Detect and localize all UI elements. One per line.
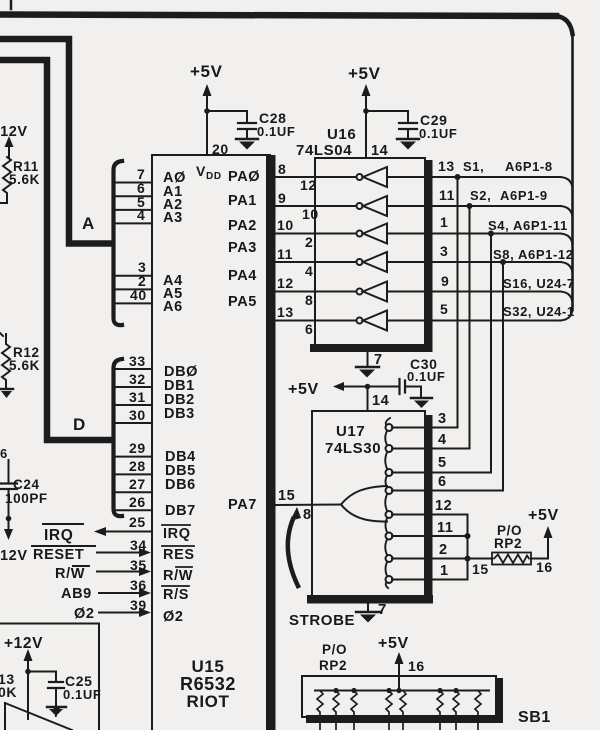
wire PA4 to U16 [276, 291, 357, 293]
svg-text:3: 3 [438, 411, 447, 427]
C24 value labels [5, 477, 48, 506]
svg-text:11: 11 [437, 520, 454, 536]
svg-text:12V: 12V [0, 548, 28, 564]
svg-text:34: 34 [130, 537, 147, 553]
SB1 label [518, 709, 551, 726]
pin 15 label (RP2) [472, 561, 489, 577]
svg-text:5: 5 [440, 301, 448, 317]
pack resistors [317, 691, 481, 730]
node A label [82, 214, 95, 233]
wire U17 pin 14 [367, 387, 369, 412]
junction +12V node [25, 669, 31, 675]
svg-text:11: 11 [277, 246, 293, 262]
svg-text:0.1UF: 0.1UF [407, 369, 445, 384]
svg-text:74LS04: 74LS04 [296, 142, 352, 159]
U15 pin stubs A4-A6 (pins 3,2,40) [116, 276, 152, 304]
junction +5V/C28 [204, 108, 210, 114]
wire inverter U16c output (S4) [387, 233, 561, 235]
pin numbers 33 32 31 30 [129, 353, 146, 423]
junction pin 2 [465, 556, 471, 562]
wire PA5 to U16 [276, 320, 357, 322]
svg-text:32: 32 [129, 371, 146, 387]
pin 35 label [130, 557, 147, 573]
svg-text:13: 13 [438, 158, 455, 174]
svg-text:12: 12 [300, 177, 317, 193]
svg-text:0.1UF: 0.1UF [257, 124, 295, 139]
bracket for address bus A [114, 161, 123, 325]
junction pin 11 [465, 533, 471, 539]
svg-text:74LS30: 74LS30 [325, 440, 381, 457]
pin 39 label [130, 597, 147, 613]
junction S2 [467, 203, 473, 209]
svg-text:DB6: DB6 [165, 477, 196, 493]
wire PA2 to U16 [276, 233, 357, 235]
svg-text:3: 3 [440, 243, 448, 259]
svg-text:PA1: PA1 [228, 193, 257, 209]
svg-text:100PF: 100PF [5, 491, 48, 506]
svg-text:S32, U24-1: S32, U24-1 [503, 304, 575, 319]
IRQ net label [44, 527, 73, 544]
U15 inside labels DB0-DB7 [164, 364, 198, 519]
junction C24 [6, 516, 12, 522]
svg-text:0K: 0K [0, 684, 17, 700]
inverter U16b [357, 196, 388, 216]
svg-text:1: 1 [440, 563, 449, 579]
svg-text:Ø2: Ø2 [163, 609, 184, 625]
svg-text:A6P1-9: A6P1-9 [500, 188, 548, 203]
node D label [73, 415, 86, 434]
external RESET arrow (pin 34) [97, 548, 151, 557]
svg-text:9: 9 [278, 190, 286, 206]
svg-text:7: 7 [53, 705, 61, 720]
svg-text:S4, A6P1-11: S4, A6P1-11 [488, 218, 568, 233]
+5V rail to U17 pin 14 and C30 [288, 381, 399, 398]
capacitor C25 0.1UF [28, 672, 64, 707]
pin 16 label (pack) [408, 658, 425, 674]
svg-text:36: 36 [130, 577, 147, 593]
IC U15 R6532 RIOT box [152, 155, 276, 730]
svg-text:DD: DD [206, 171, 222, 182]
svg-text:11: 11 [439, 187, 455, 203]
svg-text:1: 1 [440, 214, 448, 230]
svg-text:6: 6 [438, 474, 447, 490]
svg-text:+5V: +5V [378, 635, 409, 652]
U15 pin stubs A0-A3 (pins 7,6,5,4) [116, 183, 152, 224]
svg-text:7: 7 [378, 601, 387, 618]
svg-text:35: 35 [130, 557, 147, 573]
pin 25 label [129, 514, 146, 530]
svg-text:AB9: AB9 [61, 586, 92, 602]
STROBE pointer arrow [288, 507, 301, 586]
C29 value labels [419, 112, 457, 141]
svg-text:R/S: R/S [163, 587, 189, 603]
svg-text:+5V: +5V [288, 381, 319, 398]
capacitor C28 0.1UF [207, 111, 256, 138]
net label S4, A6P1-11 [488, 218, 568, 233]
svg-text:27: 27 [129, 476, 146, 492]
RP2 labels [494, 523, 522, 551]
resistor R11 5.6K [0, 157, 11, 203]
overlines for inside labels [162, 525, 194, 586]
svg-text:4: 4 [137, 207, 145, 223]
svg-text:10: 10 [277, 217, 294, 233]
svg-text:+5V: +5V [348, 64, 381, 83]
IC U17 74LS30 box [307, 411, 433, 604]
resistor R13 10K (cut at edge) labels [0, 671, 17, 700]
inverter U16a [357, 167, 388, 187]
svg-text:0.1UF: 0.1UF [63, 687, 101, 702]
svg-text:12: 12 [277, 275, 294, 291]
R/W net label [55, 566, 85, 582]
capacitor C29 0.1UF [366, 111, 417, 138]
C25 value labels [63, 673, 101, 702]
U15 pin stubs DB4-DB7 (pins 29,28,27,26) [116, 457, 152, 511]
ground (C29) [397, 139, 419, 150]
junction rail dots [333, 688, 458, 693]
resistor P/O RP2 (pull-up) [468, 553, 532, 565]
svg-text:20: 20 [212, 141, 229, 157]
wire PA3 to U16 [276, 261, 357, 263]
svg-text:7: 7 [374, 352, 383, 368]
wire inverter U16e output (S16) [387, 291, 561, 293]
svg-text:S2,: S2, [470, 188, 491, 203]
pin 20 label [212, 141, 229, 157]
keyboard resistor pack box SB1 [302, 676, 503, 723]
IC U16 74LS04 box [310, 158, 433, 352]
RESET net label [33, 547, 84, 563]
net label S2, A6P1-9 [470, 188, 548, 203]
wire U17 pins 12,11,2,1 tie [433, 515, 468, 580]
pin 8 label (U17 output) [303, 507, 312, 523]
svg-text:8: 8 [303, 507, 312, 523]
U17 input pin numbers 3 4 5 6 12 11 2 1 [435, 411, 454, 579]
net label S16, U24-7 [503, 276, 575, 291]
pin numbers 7 6 5 4 [137, 166, 145, 223]
svg-text:9: 9 [441, 273, 449, 289]
svg-text:8: 8 [305, 292, 313, 308]
svg-text:16: 16 [408, 658, 425, 674]
svg-text:+5V: +5V [528, 507, 559, 524]
pin 36 label [130, 577, 147, 593]
net label S1, A6P1-8 [463, 159, 553, 174]
bus D (thick) [0, 60, 112, 440]
U16 output pin numbers 13 11 1 3 9 5 [438, 158, 455, 317]
svg-text:6: 6 [305, 321, 313, 337]
wire inverter U16d output (S8) [387, 261, 561, 263]
NAND gate U17 body [341, 486, 387, 522]
RP2 pack labels [319, 642, 347, 673]
capacitor C24 100PF [0, 446, 17, 519]
ground (U16 pin 7) [356, 348, 379, 378]
svg-text:IRQ: IRQ [44, 527, 73, 544]
wires bubbles to box edge [392, 428, 424, 580]
U16 input pin numbers 12 10 2 4 8 6 [300, 177, 319, 337]
U17 input stem (wavy) [385, 418, 390, 588]
bracket for data bus D [114, 359, 123, 516]
phase-2 net label [74, 606, 95, 622]
ground (R12) [0, 389, 13, 398]
svg-text:R/W: R/W [163, 568, 193, 584]
inverter U16c [357, 224, 388, 244]
bus A (thick) [0, 39, 112, 244]
external IRQ arrow (pin 25) [94, 527, 152, 536]
svg-text:2: 2 [305, 234, 313, 250]
svg-text:5: 5 [438, 455, 447, 471]
+5V supply (RP2 pack pin 16) [378, 635, 409, 691]
svg-text:26: 26 [129, 494, 146, 510]
pin 16 label (RP2) [536, 559, 553, 575]
svg-text:+5V: +5V [190, 62, 223, 81]
ground (C30) [411, 398, 432, 408]
svg-text:12: 12 [435, 498, 452, 514]
U15 reference labels [180, 657, 236, 711]
overline RESET [32, 545, 95, 547]
svg-text:2: 2 [439, 542, 448, 558]
svg-text:PA5: PA5 [228, 294, 257, 310]
svg-text:V: V [196, 163, 206, 179]
bus/border top with rounded corner to right bundle [0, 15, 573, 311]
svg-text:10: 10 [302, 206, 319, 222]
U15 PA pin numbers 8 9 10 11 12 13 [277, 161, 294, 320]
svg-text:S8, A6P1-12: S8, A6P1-12 [493, 247, 574, 262]
svg-text:U17: U17 [336, 423, 365, 440]
junction +5V/C29 [363, 108, 369, 114]
pin 34 label [130, 537, 147, 553]
svg-text:6: 6 [0, 446, 8, 461]
wire inverter U16b output (S2) [387, 205, 561, 207]
STROBE label [289, 612, 355, 629]
pin 14 label (U16) [371, 143, 388, 159]
svg-text:RP2: RP2 [494, 536, 522, 551]
op-amp pin 7 label [53, 705, 61, 720]
U17 reference labels [325, 423, 381, 457]
svg-text:C24: C24 [13, 477, 40, 492]
net label S32, U24-1 [503, 304, 575, 319]
svg-text:Ø2: Ø2 [74, 606, 95, 622]
svg-text:14: 14 [371, 143, 388, 159]
svg-text:0.1UF: 0.1UF [419, 126, 457, 141]
U15 inside labels A0-A6 [163, 170, 186, 315]
overline W [73, 565, 89, 567]
U15 VDD label [196, 163, 222, 182]
overline IRQ [43, 523, 83, 525]
R11 value labels [9, 159, 40, 187]
junction S8 [500, 259, 506, 265]
wire PA1 to U16 [276, 205, 357, 207]
svg-text:S16, U24-7: S16, U24-7 [503, 276, 575, 291]
U15 pin stubs DB0-DB3 (pins 33,32,31,30) [116, 369, 152, 423]
svg-text:RES: RES [163, 547, 195, 563]
U16 reference labels [296, 126, 356, 159]
external R/W arrow (pin 35) [97, 567, 151, 576]
svg-text:33: 33 [129, 353, 146, 369]
junction S4 [488, 231, 494, 237]
op-amp U? (bottom-left, partially cut) box [0, 624, 99, 730]
inverter U16e [357, 282, 388, 302]
wire S2 down to U17 pin 4 [433, 206, 470, 449]
svg-text:A6: A6 [163, 299, 183, 315]
svg-text:DB3: DB3 [164, 406, 195, 422]
pin numbers 29 28 27 26 [129, 440, 146, 510]
svg-text:40: 40 [130, 287, 147, 303]
resistor R12 5.6K [0, 333, 10, 388]
wire S8 down to U17 pin 6 [433, 262, 503, 491]
pin 7 label (U17) [378, 601, 387, 618]
svg-text:A: A [82, 214, 95, 233]
svg-text:PAØ: PAØ [228, 169, 260, 185]
svg-text:+12V: +12V [4, 635, 43, 652]
ground (C25) [47, 707, 66, 716]
svg-text:S1,: S1, [463, 159, 484, 174]
svg-text:15: 15 [278, 488, 295, 504]
svg-text:31: 31 [129, 389, 146, 405]
svg-text:DB7: DB7 [165, 503, 196, 519]
external AB9 arrow (pin 36) [99, 589, 151, 598]
svg-text:39: 39 [130, 597, 147, 613]
svg-text:U16: U16 [327, 126, 356, 143]
junction S1 [455, 174, 461, 180]
svg-text:IRQ: IRQ [163, 526, 191, 542]
svg-text:16: 16 [536, 559, 553, 575]
svg-text:4: 4 [438, 432, 447, 448]
pin numbers 3 2 40 [130, 259, 147, 303]
+5V supply (U15 pin 20) [190, 62, 223, 155]
wire inverter U16f output (S32) [387, 320, 561, 322]
svg-text:RESET: RESET [33, 547, 84, 563]
+5V supply (RP2) [528, 507, 559, 559]
capacitor C30 0.1UF [400, 379, 422, 397]
ground (C28) [236, 139, 258, 150]
svg-text:R6532: R6532 [180, 674, 236, 694]
svg-text:A3: A3 [163, 210, 183, 226]
pin 14 label (U17) [372, 393, 389, 409]
svg-text:4: 4 [305, 263, 313, 279]
wire S1 down to U17 pin 3 [433, 177, 458, 428]
R12 value labels [9, 345, 40, 373]
svg-text:PA7: PA7 [228, 497, 257, 513]
ground (U17 pin 7) [356, 603, 380, 623]
svg-text:25: 25 [129, 514, 146, 530]
svg-text:14: 14 [372, 393, 389, 409]
svg-text:8: 8 [278, 161, 286, 177]
U15 inside labels PA0-PA5, PA7 [228, 169, 260, 513]
wire inverter U16a output (S1) [387, 176, 561, 178]
+5V supply (U16 pin 14) [348, 64, 381, 158]
svg-text:SB1: SB1 [518, 709, 551, 726]
wire PA0 to U16 [276, 176, 357, 178]
svg-text:28: 28 [129, 458, 146, 474]
svg-text:A6P1-8: A6P1-8 [505, 159, 553, 174]
svg-text:P/O: P/O [322, 642, 347, 657]
12V supply arrow (down) [0, 519, 28, 565]
svg-text:29: 29 [129, 440, 146, 456]
inverter U16d [357, 252, 388, 272]
net label S8, A6P1-12 [493, 247, 574, 262]
wire U15 PA7 pin15 to U17 gate [276, 504, 341, 507]
pin 15 label (U15 PA7) [278, 488, 295, 504]
svg-text:RP2: RP2 [319, 658, 347, 673]
svg-text:PA3: PA3 [228, 240, 257, 256]
resistor pack rail [315, 690, 489, 692]
wire S4 down to U17 pin 5 [433, 234, 491, 473]
external phase-2 arrow (pin 39) [99, 608, 151, 617]
pin 7 label (U16) [374, 352, 383, 368]
bundle merge arcs at right edge [561, 177, 573, 321]
C28 value labels [257, 110, 295, 139]
svg-text:+12V: +12V [0, 124, 28, 140]
svg-text:30: 30 [129, 407, 146, 423]
svg-text:D: D [73, 415, 86, 434]
svg-text:RIOT: RIOT [186, 692, 229, 711]
C30 value labels [407, 356, 445, 384]
+12V supply arrow (R11) [0, 124, 28, 157]
svg-text:5.6K: 5.6K [9, 172, 40, 187]
svg-text:STROBE: STROBE [289, 612, 355, 629]
+12V supply arrow (op-amp) [4, 635, 43, 719]
svg-text:13: 13 [277, 304, 294, 320]
svg-text:R/W: R/W [55, 566, 85, 582]
svg-text:5.6K: 5.6K [9, 358, 40, 373]
svg-text:15: 15 [472, 561, 489, 577]
transistor/op-amp triangle (cut) [5, 703, 72, 730]
wire stub top-left [10, 0, 13, 9]
svg-text:PA4: PA4 [228, 268, 257, 284]
U15 inside labels IRQ RES R/W R/S 02 [163, 526, 195, 625]
input bubbles U17 [386, 424, 393, 583]
svg-text:PA2: PA2 [228, 218, 257, 234]
AB9 net label [61, 586, 92, 602]
junction pin14/C30 [365, 384, 371, 390]
inverter U16f [357, 311, 388, 331]
